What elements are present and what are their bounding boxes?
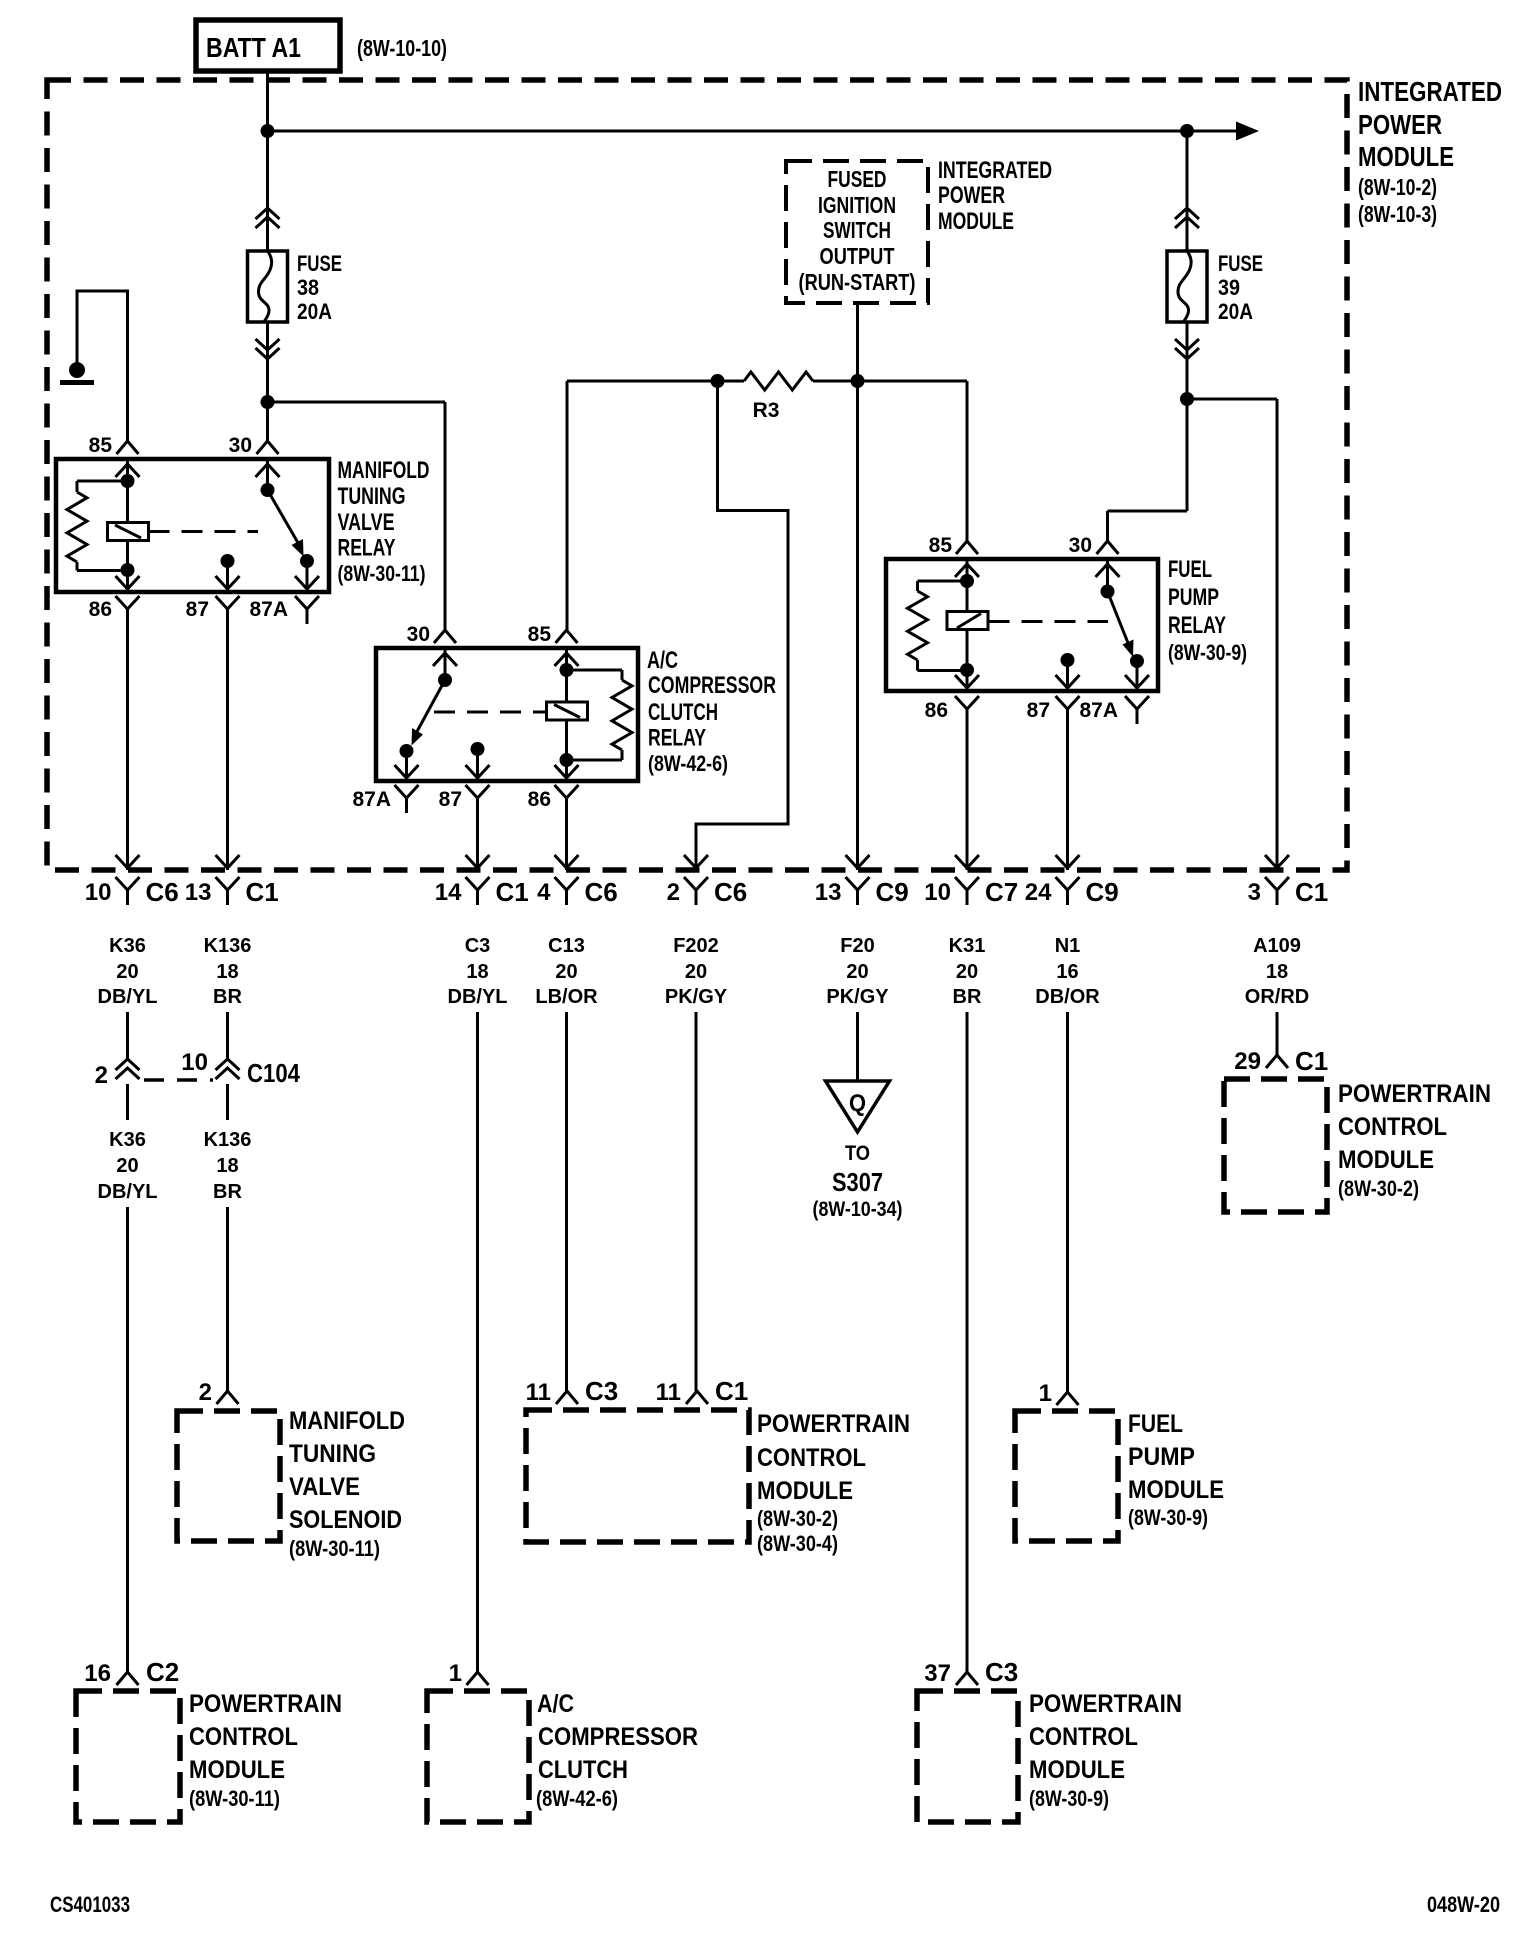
pin 85 entry fuel pump relay bbox=[955, 541, 979, 577]
connector C104 dashed joint bbox=[144, 1078, 213, 1082]
svg-text:85: 85 bbox=[89, 434, 113, 457]
wire relay 87 to pin 14 C1 bbox=[476, 813, 479, 870]
pin 24 C9 border crossing bbox=[1056, 855, 1080, 905]
svg-text:MODULE: MODULE bbox=[189, 1756, 285, 1784]
fuse 39 label bbox=[1218, 251, 1263, 324]
fuse 39 body bbox=[1167, 251, 1207, 322]
svg-text:DB/YL: DB/YL bbox=[448, 986, 508, 1008]
svg-text:1: 1 bbox=[1039, 1380, 1052, 1407]
svg-text:INTEGRATED: INTEGRATED bbox=[1358, 76, 1502, 107]
label pin 10 bbox=[181, 1049, 208, 1076]
svg-text:10: 10 bbox=[181, 1049, 208, 1076]
svg-text:(8W-30-9): (8W-30-9) bbox=[1168, 640, 1247, 665]
node coil top bbox=[560, 663, 574, 677]
svg-text:39: 39 bbox=[1218, 275, 1240, 300]
pin 86 fork below relay bbox=[955, 696, 979, 724]
pin 14 C1 border crossing bbox=[466, 855, 490, 905]
svg-text:10: 10 bbox=[924, 879, 951, 906]
relay A/C compressor clutch box bbox=[376, 648, 638, 781]
svg-text:87: 87 bbox=[186, 598, 209, 621]
svg-text:COMPRESSOR: COMPRESSOR bbox=[538, 1723, 698, 1751]
wire label K36 20 DB/YL bbox=[98, 935, 158, 1008]
svg-text:16: 16 bbox=[1056, 961, 1078, 983]
node contact 87A bbox=[400, 744, 414, 777]
svg-text:(8W-30-11): (8W-30-11) bbox=[189, 1786, 280, 1811]
pin 87A exit arrow bbox=[395, 765, 419, 778]
svg-text:C1: C1 bbox=[246, 877, 279, 907]
switch contact A/C relay bbox=[412, 648, 453, 746]
svg-text:87: 87 bbox=[439, 788, 462, 811]
svg-text:S307: S307 bbox=[832, 1167, 883, 1197]
svg-text:CONTROL: CONTROL bbox=[189, 1723, 298, 1751]
label 87 bbox=[439, 788, 462, 811]
svg-text:N1: N1 bbox=[1055, 935, 1081, 957]
resistor R3 bbox=[744, 372, 813, 390]
svg-text:85: 85 bbox=[929, 534, 953, 557]
relay fuel pump box bbox=[886, 559, 1158, 691]
pin 86 exit arrow bbox=[555, 765, 579, 778]
wire relay 87 to pin 13 C1 bbox=[226, 624, 229, 870]
pin 87A fork below relay bbox=[1125, 696, 1149, 724]
coil manifold relay bbox=[108, 523, 149, 541]
svg-text:C9: C9 bbox=[1086, 877, 1119, 907]
label pin 11 bbox=[656, 1379, 681, 1406]
wire label K31 20 BR bbox=[949, 935, 986, 1008]
label pin number 2 bbox=[667, 879, 680, 906]
label 87 bbox=[186, 598, 209, 621]
label 30 bbox=[1069, 534, 1092, 557]
label pin number 10 bbox=[924, 879, 951, 906]
svg-text:13: 13 bbox=[185, 879, 212, 906]
label connector C1 bbox=[1295, 877, 1328, 907]
pin 87 fork below relay bbox=[466, 785, 490, 813]
svg-text:A/C: A/C bbox=[647, 647, 678, 674]
label connector C1 bbox=[715, 1376, 748, 1406]
svg-text:CS401033: CS401033 bbox=[50, 1892, 130, 1917]
integrated power module boundary (dashed box) bbox=[47, 80, 1347, 870]
coil-contact dashed link bbox=[149, 530, 259, 533]
svg-text:VALVE: VALVE bbox=[289, 1473, 360, 1501]
svg-text:C1: C1 bbox=[1295, 1046, 1328, 1076]
svg-text:TUNING: TUNING bbox=[289, 1440, 376, 1468]
A/C compressor clutch label bbox=[536, 1690, 698, 1811]
svg-text:PK/GY: PK/GY bbox=[826, 986, 889, 1008]
pin 37 C3 entry PCM bbox=[956, 1672, 978, 1685]
label 85 bbox=[89, 434, 113, 457]
svg-text:20: 20 bbox=[116, 1155, 138, 1177]
wire A109 down to PCM pin 29 C1 bbox=[1276, 1012, 1279, 1055]
svg-text:POWERTRAIN: POWERTRAIN bbox=[1338, 1080, 1491, 1108]
node junction below fuse 38 bbox=[261, 395, 275, 409]
pin 30 entry A/C relay bbox=[433, 630, 457, 666]
pin 87 fork below relay bbox=[1056, 696, 1080, 724]
svg-text:(8W-42-6): (8W-42-6) bbox=[536, 1786, 618, 1811]
label pin 2 bbox=[95, 1062, 108, 1089]
wire F20 down to splice symbol bbox=[856, 1012, 859, 1081]
svg-text:87A: 87A bbox=[352, 788, 391, 811]
wire below fuse 39 bbox=[1186, 322, 1189, 511]
wire 87A stub bbox=[306, 561, 309, 588]
label 86 bbox=[528, 788, 551, 811]
svg-text:(8W-42-6): (8W-42-6) bbox=[648, 751, 728, 776]
ground bbox=[60, 362, 94, 383]
pin 1 entry A/C compressor clutch bbox=[467, 1672, 489, 1685]
svg-text:87A: 87A bbox=[1079, 699, 1118, 722]
pin 86 exit arrow bbox=[116, 576, 140, 589]
svg-text:RELAY: RELAY bbox=[1168, 612, 1226, 639]
svg-text:SOLENOID: SOLENOID bbox=[289, 1506, 402, 1534]
svg-text:30: 30 bbox=[1069, 534, 1092, 557]
svg-text:18: 18 bbox=[1266, 961, 1288, 983]
pin 87 fork below relay bbox=[216, 596, 240, 624]
powertrain control module label (middle) bbox=[757, 1410, 910, 1556]
switch contact fuel pump relay bbox=[1101, 559, 1134, 657]
fused ignition switch output box bbox=[786, 161, 928, 303]
svg-text:13: 13 bbox=[815, 879, 842, 906]
svg-text:K136: K136 bbox=[204, 935, 252, 957]
label connector C3 bbox=[985, 1657, 1018, 1687]
label connector C1 bbox=[496, 877, 529, 907]
svg-text:COMPRESSOR: COMPRESSOR bbox=[648, 672, 776, 699]
wire K36 to C104 bbox=[126, 1012, 129, 1059]
top bus wire with arrow bbox=[268, 122, 1260, 141]
svg-text:20A: 20A bbox=[297, 299, 332, 324]
svg-text:1: 1 bbox=[449, 1660, 462, 1687]
pin 87A fork below relay bbox=[395, 785, 419, 813]
wire C13 down to PCM pin 11 C3 bbox=[565, 1012, 568, 1391]
node coil top bbox=[121, 474, 135, 488]
wire junction to fuel pump relay pin 30 bbox=[1108, 511, 1188, 541]
svg-text:K136: K136 bbox=[204, 1129, 252, 1151]
svg-text:A/C: A/C bbox=[537, 1690, 574, 1718]
connector chevrons above fuse 39 bbox=[1175, 208, 1199, 228]
node junction below fuse 39 bbox=[1180, 392, 1194, 406]
label pin 2 bbox=[199, 1379, 212, 1406]
wire stepped from R3 junction to pin 2 C6 bbox=[696, 381, 788, 870]
svg-text:(8W-10-3): (8W-10-3) bbox=[1358, 201, 1437, 227]
svg-text:29: 29 bbox=[1234, 1048, 1261, 1075]
svg-text:MODULE: MODULE bbox=[1029, 1756, 1125, 1784]
connector chevrons below fuse 39 bbox=[1175, 339, 1199, 359]
svg-text:14: 14 bbox=[435, 879, 462, 906]
svg-text:C3: C3 bbox=[465, 935, 491, 957]
label (8W-10-10) bbox=[357, 35, 447, 61]
wire relay 86 to pin 10 C7 bbox=[966, 724, 969, 870]
node junction top bus at fuse 39 bbox=[1180, 124, 1194, 138]
svg-text:18: 18 bbox=[216, 1155, 238, 1177]
svg-text:PUMP: PUMP bbox=[1168, 584, 1219, 611]
svg-text:20: 20 bbox=[685, 961, 707, 983]
svg-text:CONTROL: CONTROL bbox=[1029, 1723, 1138, 1751]
svg-text:85: 85 bbox=[528, 623, 552, 646]
wire junction to A/C relay pin 30 bbox=[268, 402, 446, 630]
label pin number 13 bbox=[815, 879, 842, 906]
manifold tuning valve solenoid label bbox=[289, 1407, 405, 1561]
label pin number 4 bbox=[537, 879, 551, 906]
svg-text:2: 2 bbox=[199, 1379, 212, 1406]
svg-text:DB/YL: DB/YL bbox=[98, 1181, 158, 1203]
pin 3 C1 border crossing bbox=[1265, 855, 1289, 905]
label connector C6 bbox=[714, 877, 747, 907]
footer sheet number 048W-20 bbox=[1427, 1892, 1500, 1917]
wire K31 down to PCM pin 37 C3 bbox=[966, 1012, 969, 1672]
svg-text:18: 18 bbox=[216, 961, 238, 983]
label R3 bbox=[753, 399, 780, 422]
wire K136 to C104 bbox=[226, 1012, 229, 1059]
fuse 38 body bbox=[248, 251, 288, 322]
wire label F20 20 PK/GY bbox=[826, 935, 889, 1008]
svg-text:POWER: POWER bbox=[1358, 109, 1442, 140]
svg-text:TUNING: TUNING bbox=[338, 483, 406, 510]
svg-text:048W-20: 048W-20 bbox=[1427, 1892, 1500, 1917]
svg-text:(8W-30-11): (8W-30-11) bbox=[289, 1536, 380, 1561]
label 85 bbox=[528, 623, 552, 646]
wire junction to fuse 38 bbox=[266, 131, 269, 251]
label connector C9 bbox=[1086, 877, 1119, 907]
wire K136 down to solenoid pin 2 bbox=[226, 1207, 229, 1391]
resistor manifold relay coil suppression bbox=[67, 481, 128, 571]
svg-text:DB/YL: DB/YL bbox=[98, 986, 158, 1008]
svg-text:OUTPUT: OUTPUT bbox=[820, 243, 895, 269]
pin 10 C6 border crossing bbox=[116, 855, 140, 905]
svg-text:20: 20 bbox=[956, 961, 978, 983]
wire relay 86 to pin 10 C6 bbox=[126, 624, 129, 870]
pin 13 C9 border crossing bbox=[846, 855, 870, 905]
pin 85 entry manifold relay bbox=[116, 441, 140, 477]
node contact 87A bbox=[1130, 654, 1144, 688]
svg-text:CONTROL: CONTROL bbox=[757, 1444, 866, 1472]
svg-text:30: 30 bbox=[229, 434, 252, 457]
svg-text:(8W-30-4): (8W-30-4) bbox=[757, 1531, 838, 1556]
pin 11 C1 entry PCM bbox=[686, 1391, 708, 1404]
label pin 37 bbox=[924, 1660, 951, 1687]
svg-text:MANIFOLD: MANIFOLD bbox=[338, 457, 430, 484]
label pin 16 bbox=[84, 1660, 111, 1687]
wire R3 bus left segment bbox=[567, 380, 744, 383]
svg-text:K36: K36 bbox=[109, 1129, 146, 1151]
node coil bottom bbox=[121, 563, 135, 577]
svg-text:20: 20 bbox=[846, 961, 868, 983]
battery feed BATT A1 box bbox=[196, 20, 340, 71]
svg-text:(8W-10-2): (8W-10-2) bbox=[1358, 174, 1437, 200]
svg-text:2: 2 bbox=[667, 879, 680, 906]
svg-text:C104: C104 bbox=[247, 1058, 300, 1088]
svg-text:MODULE: MODULE bbox=[757, 1477, 853, 1505]
svg-text:FUEL: FUEL bbox=[1128, 1410, 1183, 1438]
integrated power module label (middle) bbox=[938, 157, 1052, 235]
wire label N1 16 DB/OR bbox=[1035, 935, 1100, 1008]
switch contact manifold relay bbox=[261, 459, 304, 557]
svg-text:PK/GY: PK/GY bbox=[665, 986, 728, 1008]
pin 30 entry fuel pump relay bbox=[1096, 541, 1120, 577]
svg-text:86: 86 bbox=[89, 598, 112, 621]
coil fuel pump relay bbox=[947, 612, 988, 630]
svg-text:F202: F202 bbox=[673, 935, 719, 957]
pin 1 entry fuel pump module bbox=[1057, 1392, 1079, 1405]
relay A/C compressor clutch label bbox=[647, 647, 776, 776]
label connector C6 bbox=[585, 877, 618, 907]
svg-text:VALVE: VALVE bbox=[338, 509, 395, 536]
svg-text:DB/OR: DB/OR bbox=[1035, 986, 1100, 1008]
svg-text:C9: C9 bbox=[876, 877, 909, 907]
node contact 87 bbox=[1061, 653, 1075, 688]
pin 87A exit arrow bbox=[1125, 675, 1149, 688]
svg-text:Q: Q bbox=[849, 1090, 866, 1117]
fuse 38 label bbox=[297, 251, 342, 324]
resistor A/C relay coil suppression bbox=[567, 670, 633, 760]
label 87A bbox=[352, 788, 391, 811]
connector C104 pin 2 chevrons bbox=[116, 1059, 140, 1120]
label pin 1 bbox=[449, 1660, 462, 1687]
svg-text:C13: C13 bbox=[548, 935, 585, 957]
label TO S307 bbox=[813, 1142, 903, 1221]
svg-text:CONTROL: CONTROL bbox=[1338, 1113, 1447, 1141]
splice symbol Q to S307 bbox=[826, 1081, 890, 1132]
pin 85 entry A/C relay bbox=[555, 630, 579, 666]
svg-text:30: 30 bbox=[407, 623, 430, 646]
label connector C3 bbox=[585, 1376, 618, 1406]
svg-text:20: 20 bbox=[116, 961, 138, 983]
pin 4 C6 border crossing bbox=[555, 855, 579, 905]
powertrain control module label (bottom left) bbox=[189, 1690, 342, 1811]
svg-text:C3: C3 bbox=[985, 1657, 1018, 1687]
svg-text:11: 11 bbox=[656, 1379, 681, 1406]
pin 87A exit arrow bbox=[295, 576, 319, 589]
svg-text:38: 38 bbox=[297, 275, 319, 300]
node coil bottom bbox=[960, 663, 974, 677]
svg-text:C6: C6 bbox=[146, 877, 179, 907]
svg-text:C1: C1 bbox=[496, 877, 529, 907]
wire label K36 20 DB/YL (below C104) bbox=[98, 1129, 158, 1203]
label 86 bbox=[89, 598, 112, 621]
svg-text:(8W-30-2): (8W-30-2) bbox=[757, 1506, 838, 1531]
wire label F202 20 PK/GY bbox=[665, 935, 728, 1008]
integrated power module title bbox=[1358, 76, 1502, 227]
svg-text:F20: F20 bbox=[840, 935, 874, 957]
svg-text:PUMP: PUMP bbox=[1128, 1443, 1195, 1471]
svg-text:10: 10 bbox=[85, 879, 112, 906]
svg-text:POWERTRAIN: POWERTRAIN bbox=[1029, 1690, 1182, 1718]
connector chevrons above fuse 38 bbox=[256, 208, 280, 228]
wire label A109 18 OR/RD bbox=[1245, 935, 1309, 1008]
powertrain control module label (bottom right) bbox=[1029, 1690, 1182, 1811]
svg-text:MODULE: MODULE bbox=[938, 208, 1014, 235]
svg-text:K31: K31 bbox=[949, 935, 986, 957]
powertrain control module box (8W-30-2) bbox=[1224, 1079, 1327, 1212]
svg-text:C1: C1 bbox=[1295, 877, 1328, 907]
wire coil pin 85 internal bbox=[565, 648, 568, 777]
svg-text:(8W-10-34): (8W-10-34) bbox=[813, 1198, 903, 1221]
node contact 87A bbox=[300, 554, 314, 568]
svg-text:MODULE: MODULE bbox=[1128, 1476, 1224, 1504]
powertrain control module label bbox=[1338, 1080, 1491, 1201]
pin 29 C1 entry powertrain control module bbox=[1266, 1055, 1288, 1068]
node contact 87 bbox=[221, 554, 235, 588]
svg-text:POWER: POWER bbox=[938, 182, 1005, 209]
label 30 bbox=[407, 623, 430, 646]
footer drawing number CS401033 bbox=[50, 1892, 130, 1917]
svg-text:C7: C7 bbox=[985, 877, 1018, 907]
node junction R3 right (ignition feed) bbox=[851, 374, 865, 388]
svg-text:BR: BR bbox=[213, 986, 242, 1008]
svg-text:(8W-30-11): (8W-30-11) bbox=[338, 561, 426, 586]
label pin 29 bbox=[1234, 1048, 1261, 1075]
label connector C7 bbox=[985, 877, 1018, 907]
pin 11 C3 entry PCM bbox=[556, 1391, 578, 1404]
svg-text:BATT A1: BATT A1 bbox=[206, 32, 301, 63]
pin 30 entry manifold relay bbox=[256, 441, 280, 477]
connector chevrons below fuse 38 bbox=[256, 339, 280, 359]
svg-text:(8W-10-10): (8W-10-10) bbox=[357, 35, 447, 61]
pin 2 entry solenoid bbox=[217, 1391, 239, 1404]
svg-text:POWERTRAIN: POWERTRAIN bbox=[757, 1410, 910, 1438]
svg-text:CLUTCH: CLUTCH bbox=[538, 1756, 628, 1784]
wire F202 down to PCM pin 11 C1 bbox=[695, 1012, 698, 1391]
node contact 87 bbox=[471, 742, 485, 777]
label connector C1 bbox=[1295, 1046, 1328, 1076]
pin 2 C6 border crossing bbox=[684, 855, 708, 905]
pin 16 C2 entry PCM bbox=[117, 1672, 139, 1685]
svg-text:24: 24 bbox=[1025, 879, 1052, 906]
wire C3 down to A/C compressor clutch bbox=[476, 1012, 479, 1672]
wire ignition feed down to pin 13 C9 bbox=[856, 381, 859, 870]
coil A/C relay bbox=[547, 702, 588, 720]
wire R3 bus right segment bbox=[813, 380, 967, 383]
label pin 1 bbox=[1039, 1380, 1052, 1407]
wire junction to pin 3 C1 bbox=[1187, 399, 1277, 870]
node coil bottom bbox=[560, 753, 574, 767]
wire relay 87 to pin 24 C9 bbox=[1066, 724, 1069, 870]
svg-text:RELAY: RELAY bbox=[648, 725, 706, 752]
svg-text:86: 86 bbox=[925, 699, 948, 722]
svg-text:LB/OR: LB/OR bbox=[535, 986, 598, 1008]
svg-text:3: 3 bbox=[1248, 879, 1261, 906]
label pin 11 bbox=[526, 1379, 551, 1406]
wire bus down to A/C relay pin 85 bbox=[566, 381, 569, 630]
pin 87 exit arrow bbox=[216, 576, 240, 589]
label pin number 10 bbox=[85, 879, 112, 906]
svg-text:(8W-30-9): (8W-30-9) bbox=[1128, 1505, 1208, 1530]
wire K36 down to PCM pin 16 C2 bbox=[126, 1207, 129, 1672]
svg-text:FUSE: FUSE bbox=[1218, 251, 1263, 276]
label 87A bbox=[249, 598, 288, 621]
node junction R3 left bbox=[711, 374, 725, 388]
manifold tuning valve solenoid box bbox=[177, 1411, 280, 1541]
node junction at top bus left bbox=[261, 124, 275, 138]
svg-text:11: 11 bbox=[526, 1379, 551, 1406]
wire from BATT A1 down to junction bbox=[266, 71, 269, 131]
label connector C2 bbox=[146, 1657, 179, 1687]
wire label K136 18 BR (below C104) bbox=[204, 1129, 252, 1203]
label connector C9 bbox=[876, 877, 909, 907]
wire relay 86 to pin 4 C6 bbox=[565, 813, 568, 870]
svg-text:MANIFOLD: MANIFOLD bbox=[289, 1407, 405, 1435]
powertrain control module box (8W-30-11) bbox=[76, 1691, 180, 1822]
pin 13 C1 border crossing bbox=[216, 855, 240, 905]
svg-text:(RUN-START): (RUN-START) bbox=[799, 269, 916, 295]
svg-text:CLUTCH: CLUTCH bbox=[648, 699, 718, 726]
fuel pump module box bbox=[1015, 1411, 1118, 1541]
svg-text:FUSED: FUSED bbox=[828, 166, 887, 192]
label 86 bbox=[925, 699, 948, 722]
svg-text:IGNITION: IGNITION bbox=[818, 192, 896, 218]
svg-text:20: 20 bbox=[555, 961, 577, 983]
relay fuel pump label bbox=[1168, 556, 1247, 665]
powertrain control module box (8W-30-2)(8W-30-4) bbox=[526, 1410, 749, 1542]
powertrain control module box (8W-30-9) bbox=[917, 1691, 1018, 1822]
label connector C6 bbox=[146, 877, 179, 907]
pin 86 fork below relay bbox=[555, 785, 579, 813]
